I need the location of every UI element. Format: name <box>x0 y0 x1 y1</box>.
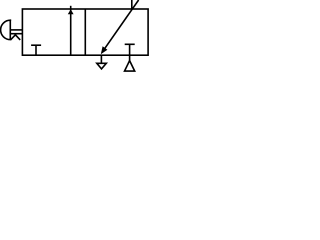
push rod top line <box>10 29 22 31</box>
left blocked port T bar <box>31 44 41 46</box>
up arrow shaft <box>70 6 72 55</box>
push rod bottom line <box>10 33 22 35</box>
valve body box <box>22 9 148 55</box>
port 2 line <box>131 0 133 9</box>
right blocked port T bar <box>125 43 135 45</box>
diagonal arrow head <box>101 46 108 54</box>
up arrow head <box>68 9 74 14</box>
diagonal flow path <box>102 0 139 53</box>
divider between positions <box>84 9 86 55</box>
detent notch <box>11 35 21 40</box>
exhaust stub <box>129 55 131 60</box>
right blocked port T stem <box>129 44 131 55</box>
port 3 open triangle <box>97 63 107 69</box>
left blocked port T stem <box>35 45 37 55</box>
exhaust triangle <box>125 61 135 72</box>
push button arc <box>1 20 12 39</box>
port 3 stub <box>100 55 102 63</box>
